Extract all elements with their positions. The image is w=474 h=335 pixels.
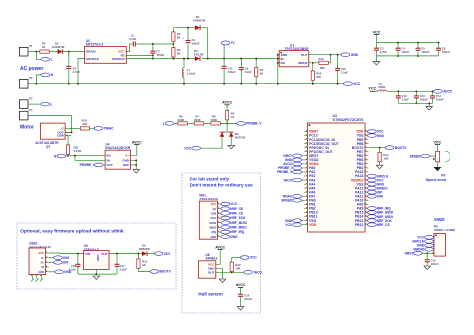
- resistor R16: [313, 62, 319, 64]
- ground decoupling row: [376, 56, 378, 62]
- svg-text:GND: GND: [122, 158, 130, 162]
- svg-text:AVCC: AVCC: [215, 245, 225, 249]
- svg-text:2.2uF: 2.2uF: [245, 70, 253, 74]
- svg-text:P2: P2: [29, 76, 33, 80]
- svg-text:4.7uF: 4.7uF: [73, 70, 81, 74]
- dashed box usb: [17, 223, 176, 289]
- svg-text:NRF_CS: NRF_CS: [377, 223, 390, 227]
- capacitor C5: [417, 43, 419, 49]
- svg-text:OUT: OUT: [101, 252, 108, 256]
- svg-text:VCC: VCC: [230, 202, 237, 206]
- svg-text:Speed knob: Speed knob: [426, 178, 447, 182]
- svg-text:PROBE_V: PROBE_V: [277, 170, 293, 174]
- svg-text:SWDS-1.27MM: SWDS-1.27MM: [434, 228, 455, 232]
- capacitor C16: [77, 254, 79, 265]
- ground R14: [376, 165, 383, 169]
- svg-text:SWDIO: SWDIO: [413, 248, 424, 252]
- svg-text:10K: 10K: [235, 267, 240, 271]
- net flag SWDIO at MCU right: [367, 187, 368, 189]
- svg-text:AVCC: AVCC: [132, 140, 142, 144]
- net flag AVCC: [433, 89, 442, 93]
- svg-text:GND: GND: [210, 235, 216, 239]
- svg-text:NRF_MISO: NRF_MISO: [230, 226, 247, 230]
- net flag NRF_MOSI MH1: [221, 221, 230, 225]
- net flag VCC usb: [154, 252, 163, 256]
- svg-text:B5819W: B5819W: [139, 247, 150, 251]
- svg-text:NRST: NRST: [405, 252, 414, 256]
- net flag GND at MCU left: [302, 159, 305, 161]
- svg-text:CSN: CSN: [211, 211, 217, 215]
- svg-text:P4: P4: [29, 108, 33, 112]
- svg-text:IRQ: IRQ: [211, 230, 216, 234]
- wire R7-R8: [204, 122, 211, 124]
- wire D4 right to ground: [230, 137, 232, 146]
- wire usb vcc to U5: [49, 252, 84, 255]
- svg-text:OUT: OUT: [301, 53, 308, 57]
- svg-text:2.2uF: 2.2uF: [402, 98, 410, 102]
- op-amp U2 flyback controller: [84, 46, 126, 63]
- ground C18: [237, 307, 244, 311]
- svg-text:200K: 200K: [211, 118, 218, 122]
- svg-text:10K: 10K: [383, 157, 388, 161]
- net flag NRF_CS at MCU right: [367, 224, 368, 226]
- net flag L: [36, 52, 41, 60]
- net flag VCC at MCU left: [302, 224, 305, 226]
- svg-text:100nF: 100nF: [401, 50, 409, 54]
- svg-text:V+: V+: [125, 153, 129, 157]
- wire R10 to TRIAC flag: [90, 127, 94, 129]
- diode D2: [58, 49, 63, 54]
- svg-text:Q1: Q1: [46, 145, 50, 149]
- diode D1: [195, 25, 200, 30]
- svg-text:IOM: IOM: [377, 195, 383, 199]
- capacitor C17: [116, 254, 118, 265]
- diode D3: [195, 56, 200, 61]
- svg-text:MP157GJ-Z: MP157GJ-Z: [86, 43, 103, 47]
- net flag BOOT0: [385, 146, 394, 150]
- net flag TACO hall: [244, 270, 253, 274]
- net flag NRF_MOSI at MCU right: [367, 212, 368, 214]
- svg-text:390: 390: [320, 66, 325, 70]
- svg-text:R16: R16: [319, 57, 325, 61]
- capacitor C2: [187, 28, 189, 41]
- net flag IOP usb: [49, 261, 54, 263]
- wire P3 to flag: [28, 103, 41, 105]
- wire U2 left source to rail: [78, 59, 84, 84]
- svg-text:VCC: VCC: [372, 30, 380, 34]
- svg-text:GND: GND: [38, 270, 44, 274]
- svg-text:100nF: 100nF: [431, 262, 439, 266]
- svg-text:CE: CE: [212, 207, 216, 211]
- net flag IOP at MCU right: [367, 191, 368, 193]
- wire bottom rail: [28, 83, 344, 85]
- capacitor C15: [426, 253, 428, 259]
- connector P3: [19, 100, 28, 109]
- svg-text:TRIAC: TRIAC: [104, 127, 115, 131]
- wire to U4 IN-: [75, 156, 105, 161]
- resistor R14: [379, 148, 381, 153]
- svg-text:GND: GND: [351, 53, 359, 57]
- svg-text:2.2uF: 2.2uF: [341, 70, 349, 74]
- wire U2 aux VCC to C1: [126, 44, 132, 52]
- net flag VCC MH1: [221, 202, 230, 206]
- svg-text:NRF_IRQ: NRF_IRQ: [230, 230, 245, 234]
- svg-text:GND: GND: [230, 235, 238, 239]
- svg-text:REF: REF: [123, 163, 129, 167]
- capacitor C9: [240, 59, 242, 68]
- net flag VCC at MCU right: [367, 179, 368, 181]
- wire VCC cap rail bottom: [377, 55, 439, 57]
- connector P2: [19, 80, 28, 89]
- net flag N at shunt: [57, 154, 66, 158]
- capacitor C14: [432, 91, 434, 96]
- capacitor C11: [223, 59, 225, 67]
- svg-text:VCC: VCC: [164, 252, 171, 256]
- resistor R11: [66, 145, 69, 154]
- diode D4 BAT54S: [226, 123, 228, 132]
- svg-text:DRAIN: DRAIN: [86, 50, 96, 54]
- op-amp U1 negative LDO: [279, 51, 309, 67]
- wire triac gate: [71, 127, 81, 129]
- svg-text:EN: EN: [281, 61, 285, 65]
- svg-text:Don't mount for ordinary use: Don't mount for ordinary use: [190, 182, 254, 187]
- svg-text:AVCC: AVCC: [236, 283, 246, 287]
- connector P4: [19, 111, 28, 120]
- svg-text:PROBE_I: PROBE_I: [80, 163, 94, 167]
- potentiometer P9 speed knob: [436, 151, 440, 162]
- resistor R6: [178, 122, 187, 125]
- svg-text:VCC: VCC: [184, 147, 192, 151]
- net flag TRIAC at MCU left: [302, 195, 305, 197]
- svg-text:1.5mH: 1.5mH: [187, 72, 195, 76]
- svg-text:3K: 3K: [177, 36, 181, 40]
- svg-text:NRF_MOSI: NRF_MOSI: [230, 221, 247, 225]
- svg-text:L: L: [51, 102, 53, 106]
- capacitor C8: [438, 43, 440, 49]
- svg-text:1K: 1K: [231, 115, 235, 119]
- resistor R15: [309, 63, 313, 71]
- wire BOOT0 from MCU: [368, 147, 385, 149]
- svg-text:For lab stand only: For lab stand only: [190, 176, 230, 181]
- svg-text:2.2uF: 2.2uF: [120, 268, 128, 272]
- svg-text:MOSI: MOSI: [209, 221, 216, 225]
- svg-text:L: L: [51, 58, 53, 62]
- net flag SWCLK at MCU right: [367, 175, 368, 177]
- net flag PROBE_V at MCU left: [302, 171, 305, 173]
- svg-text:PROBE_V: PROBE_V: [246, 122, 262, 126]
- net flag NRST at MCU left: [302, 155, 305, 157]
- net flag NRST swd: [413, 251, 422, 255]
- svg-text:200K: 200K: [194, 118, 201, 122]
- svg-text:VCC: VCC: [353, 82, 361, 86]
- svg-text:SPEED: SPEED: [410, 154, 422, 158]
- svg-text:100nF: 100nF: [436, 98, 444, 102]
- svg-text:IN-: IN-: [107, 158, 111, 162]
- net flag GND at MCU right: [367, 183, 368, 185]
- svg-text:COM: COM: [57, 134, 65, 138]
- svg-text:VCC: VCC: [211, 202, 217, 206]
- svg-text:NRF_SCK: NRF_SCK: [230, 216, 246, 220]
- svg-text:100uF: 100uF: [228, 70, 236, 74]
- wire R8 to PROBE_V: [220, 122, 236, 124]
- net flag PROBE_V: [237, 122, 246, 126]
- wire U2 FB to C7: [126, 54, 153, 56]
- capacitor C7: [152, 44, 154, 51]
- svg-text:NRF_CS: NRF_CS: [230, 212, 243, 216]
- dashed box lab stand: [182, 173, 261, 313]
- svg-text:2.2uF: 2.2uF: [380, 50, 388, 54]
- wire U5 out: [109, 253, 142, 255]
- resistor R12: [137, 254, 139, 259]
- net flag NRF_CE MH1: [221, 207, 230, 211]
- op-amp U3 MCU STM32F072C8T6: [308, 123, 366, 232]
- wire triac COM to R11: [65, 136, 68, 145]
- svg-text:D+: D+: [41, 261, 45, 265]
- svg-text:IN+: IN+: [107, 153, 112, 157]
- resistor R1: [172, 28, 174, 32]
- wire P4 to triac out: [28, 116, 72, 133]
- net flag NRF_SCK at MCU right: [367, 220, 368, 222]
- net flag VCC swd: [425, 235, 434, 239]
- svg-text:GND: GND: [377, 134, 385, 138]
- svg-text:SOURCE: SOURCE: [112, 57, 125, 61]
- svg-text:VCC: VCC: [39, 251, 45, 255]
- net flag VCC at MCU right: [367, 131, 368, 133]
- svg-text:ID: ID: [42, 265, 45, 269]
- ground hall: [219, 279, 226, 283]
- resistor R2: [40, 50, 49, 53]
- net flag SWCLK: [425, 239, 434, 243]
- svg-text:P1: P1: [29, 44, 33, 48]
- resistor R4: [255, 59, 257, 68]
- svg-text:470pF: 470pF: [156, 53, 164, 57]
- svg-text:BOOT0: BOOT0: [395, 146, 406, 150]
- svg-text:3K: 3K: [260, 72, 264, 76]
- svg-text:TPS72301DBVR: TPS72301DBVR: [285, 47, 310, 51]
- inductor L1: [183, 59, 185, 68]
- svg-text:VCC: VCC: [433, 140, 441, 144]
- svg-text:IOM: IOM: [63, 256, 69, 260]
- svg-text:PB12: PB12: [355, 223, 364, 227]
- wire R2 to D2: [49, 51, 57, 53]
- net flag NRF_MISO MH1: [221, 226, 230, 230]
- capacitor C6: [68, 52, 70, 67]
- capacitor C18: [238, 293, 243, 295]
- svg-text:AH9813: AH9813: [205, 257, 217, 261]
- net flag GND usb: [49, 271, 55, 273]
- resistor R8: [211, 122, 220, 125]
- net flag NRF_SCK MH1: [221, 216, 230, 220]
- svg-text:220: 220: [316, 75, 321, 79]
- net flag VCC hall: [232, 257, 241, 259]
- wire mid rail: [126, 58, 195, 60]
- wire hall gnd: [216, 268, 223, 279]
- wire U1 input side: [278, 55, 279, 84]
- svg-text:Hall sensor: Hall sensor: [198, 291, 223, 296]
- wire net L from P1: [28, 51, 40, 53]
- svg-text:STM32F072C8T6: STM32F072C8T6: [333, 117, 365, 122]
- wire U4 gnd ref: [131, 160, 137, 169]
- wire U1 output: [309, 54, 341, 56]
- net flag GND MH1: [221, 235, 230, 239]
- svg-text:1K: 1K: [42, 45, 46, 49]
- svg-text:100nF: 100nF: [421, 50, 429, 54]
- svg-text:VCC: VCC: [250, 256, 257, 260]
- net flag PROBE_I at MCU left: [302, 167, 305, 169]
- net flag NRF_CS MH1: [221, 211, 230, 215]
- svg-text:100nF: 100nF: [420, 98, 428, 102]
- svg-text:L: L: [163, 122, 165, 126]
- resistor R3: [172, 48, 175, 57]
- ferrite bead L2: [378, 90, 381, 91]
- resistor R7: [194, 122, 203, 125]
- capacitor C13: [415, 91, 417, 96]
- capacitor C4: [397, 43, 399, 49]
- wire top aux rail: [173, 27, 195, 29]
- capacitor C12: [397, 91, 399, 96]
- svg-text:0.01Ω: 0.01Ω: [74, 149, 82, 153]
- svg-text:BOOT0: BOOT0: [160, 270, 171, 274]
- resistor R5: [226, 111, 229, 120]
- net flag VCC main rail: [343, 82, 352, 86]
- svg-text:100nF: 100nF: [442, 50, 450, 54]
- svg-text:VCC: VCC: [285, 223, 292, 227]
- svg-text:220uF: 220uF: [192, 42, 200, 46]
- net flag GND at MCU right: [367, 135, 368, 137]
- svg-text:VCC: VCC: [368, 87, 376, 91]
- svg-text:2.2uF: 2.2uF: [129, 37, 137, 41]
- svg-text:AVCC: AVCC: [443, 90, 453, 94]
- wire shunt to U4 IN+: [68, 155, 105, 157]
- svg-text:1N4007W: 1N4007W: [52, 45, 65, 49]
- net flag GND at MCU left: [302, 220, 305, 222]
- svg-text:100nF: 100nF: [244, 297, 252, 301]
- svg-text:SPEED: SPEED: [281, 199, 293, 203]
- svg-text:AVCC: AVCC: [222, 101, 232, 105]
- svg-text:220: 220: [83, 122, 88, 126]
- net flag N: [41, 73, 50, 77]
- svg-text:OUT: OUT: [208, 270, 215, 274]
- capacitor C3: [376, 43, 378, 49]
- svg-text:SOURCE: SOURCE: [86, 57, 99, 61]
- svg-text:BAT54S: BAT54S: [235, 136, 246, 140]
- wire VCC cap rail top: [377, 42, 439, 44]
- svg-text:P3: P3: [29, 96, 33, 100]
- ground D4: [228, 145, 235, 149]
- ground C15: [424, 266, 431, 270]
- svg-text:600Ω: 600Ω: [379, 85, 387, 89]
- svg-text:IOP: IOP: [63, 261, 69, 265]
- net flag L motor: [41, 102, 50, 106]
- capacitor C10: [337, 55, 339, 69]
- ground speed knob: [436, 162, 438, 167]
- op-amp U4 current sense: [105, 150, 130, 169]
- resistor R10: [80, 127, 89, 130]
- net flag TACO at MCU left: [302, 179, 305, 181]
- net flag TRIAC: [94, 127, 103, 131]
- svg-text:Motor: Motor: [20, 125, 34, 131]
- svg-text:GND: GND: [96, 255, 100, 263]
- svg-text:NR/FB: NR/FB: [298, 61, 308, 65]
- transistor Q1 triac: [40, 123, 65, 139]
- usb shield pins: [31, 275, 33, 280]
- wire D6 to VCC flag: [147, 253, 155, 255]
- svg-text:TACO: TACO: [253, 271, 262, 275]
- svg-text:AC power: AC power: [20, 66, 43, 72]
- net flag IOM at MCU right: [367, 195, 368, 197]
- net flag NRF_IRQ at MCU right: [367, 207, 368, 209]
- svg-text:SCK: SCK: [211, 216, 217, 220]
- svg-text:SWD: SWD: [434, 217, 445, 222]
- svg-text:TACO: TACO: [283, 178, 292, 182]
- svg-text:3K: 3K: [177, 52, 181, 56]
- net flag BOOT0 usb: [150, 270, 159, 274]
- svg-text:NRF_CE: NRF_CE: [230, 207, 243, 211]
- svg-text:Optional, easy firmware upload: Optional, easy firmware upload without s…: [20, 229, 124, 235]
- capacitor C1: [133, 42, 135, 47]
- resistor R13: [231, 258, 233, 263]
- diode D6: [142, 251, 147, 256]
- wire D4 left to VCC flag: [202, 137, 222, 148]
- net flag GND at U1 out: [341, 53, 350, 57]
- wire AVCC rail bottom: [398, 102, 432, 104]
- wire R6-R7: [187, 122, 194, 124]
- svg-text:VIN: VIN: [85, 252, 90, 256]
- svg-text:D-: D-: [41, 256, 44, 260]
- wire usb gnd rail: [78, 273, 117, 275]
- net flag IOM usb: [49, 257, 54, 259]
- svg-text:ASD1-ML01S: ASD1-ML01S: [199, 197, 218, 201]
- wire D2 to U2 drain: [62, 51, 84, 53]
- net flag SPEED at MCU left: [302, 199, 305, 201]
- ground U5: [93, 276, 100, 280]
- connector P1: [19, 47, 28, 56]
- svg-text:2.2uF: 2.2uF: [69, 268, 77, 272]
- svg-text:MISO: MISO: [209, 225, 216, 229]
- svg-text:1K: 1K: [142, 263, 146, 267]
- svg-text:VDD: VDD: [309, 223, 317, 227]
- svg-text:ES1JW: ES1JW: [194, 53, 204, 57]
- svg-text:1N4007W: 1N4007W: [193, 19, 206, 23]
- net flag AVCC at MCU left: [302, 163, 305, 165]
- svg-text:INA213AQDCKR: INA213AQDCKR: [105, 146, 130, 150]
- net flag GND swd: [425, 243, 434, 247]
- svg-text:OUT: OUT: [107, 163, 114, 167]
- svg-text:200K: 200K: [178, 118, 185, 122]
- ground U4: [133, 170, 140, 174]
- wire hall out: [216, 271, 244, 273]
- net flag NRF_MISO at MCU right: [367, 216, 368, 218]
- ground AVCC row: [428, 103, 430, 106]
- net flag 7V: [221, 41, 230, 45]
- net flag SWDIO: [425, 247, 434, 251]
- wire AVCC rail: [387, 90, 434, 92]
- net flag NRF_IRQ MH1: [221, 230, 230, 234]
